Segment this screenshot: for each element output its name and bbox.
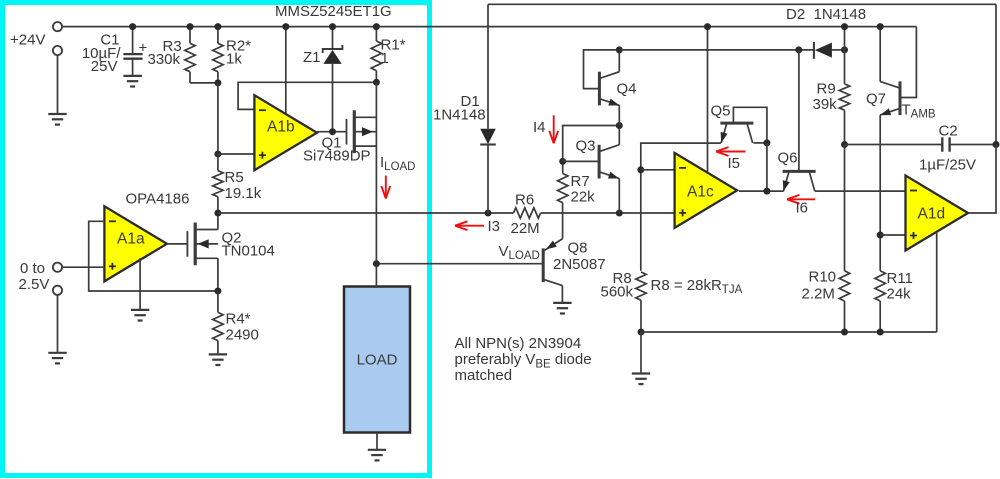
wire Q2 source down [217,258,219,291]
transistor Q6 PNP [783,170,816,173]
svg-text:R10: R10 [809,268,837,285]
svg-text:22k: 22k [571,189,596,206]
op-amp A1d [906,176,969,251]
op-amp A1a [104,206,166,281]
svg-text:2N5087: 2N5087 [553,256,606,273]
svg-text:Q5: Q5 [711,102,731,119]
node D2 cathode / Q6 base [795,46,802,53]
svg-text:19.1k: 19.1k [225,185,262,202]
node A (R2/R3 bottom) [214,79,221,86]
resistor R8 560k [636,272,646,300]
svg-text:Q7: Q7 [866,91,886,108]
svg-text:2490: 2490 [226,326,259,343]
diode D1 1N4148 [487,4,489,129]
ground for R4 [209,353,227,355]
svg-text:22M: 22M [511,220,540,237]
resistor R1* 1 [375,27,377,41]
op-amp A1b [254,95,317,170]
wire rail right corner down to Q7 base [902,27,917,98]
wire Q8 collector to ground [561,286,563,303]
svg-text:1: 1 [381,50,389,67]
wire LOAD bottom lead [376,433,378,450]
svg-text:Q8: Q8 [568,239,588,256]
node A1b plus tap [214,151,221,158]
node rail-R3 [187,23,194,30]
zener diode Z1 [332,27,334,49]
node load top [373,260,380,267]
node rail-A1b supply [282,23,289,30]
node A1c minus tap [637,166,644,173]
wire top loop D1 to A1d output [488,3,996,5]
wire Q8 emitter up to R7 [562,204,564,239]
wire Q2 drain to R5 bottom node [217,213,219,230]
svg-text:All NPN(s) 2N3904: All NPN(s) 2N3904 [455,335,582,352]
ground for R8 [632,372,650,374]
wire I4 branch from Q4 emitter node [563,126,620,162]
ground [48,113,66,115]
resistor R7 22k [562,161,564,173]
svg-text:+: + [139,40,148,57]
svg-text:MMSZ5245ET1G: MMSZ5245ET1G [275,3,392,20]
svg-text:A1a: A1a [117,231,145,248]
resistor R10 2.2M [839,271,849,301]
svg-text:TN0104: TN0104 [222,243,275,260]
wire A1a output to Q2 gate [167,243,188,245]
wire A1d V- to ground net [936,232,938,332]
svg-text:LOAD: LOAD [357,352,398,369]
wire A1a feedback minus to Q2 source node [89,221,218,291]
node D1 cathode on sense run [485,210,492,217]
svg-text:0 to: 0 to [20,260,45,277]
transistor Q8 2N5087 PNP [542,248,545,282]
node Q2 source / R4 / A1a feedback [214,288,221,295]
wire line Q4 collector to D2 [619,49,814,51]
wire Q3 emitter down [618,179,620,214]
ground for C1 [123,75,141,77]
svg-text:I5: I5 [728,155,741,172]
wire Q7 collector to rail [879,27,881,82]
svg-text:A1c: A1c [687,184,714,201]
transistor Q2 TN0104 N-MOSFET [186,231,188,257]
node rail-D2 [841,23,848,30]
wire Q6 collector to A1d minus [815,190,906,192]
transistor Q4 NPN diode-connected [598,72,601,106]
wire D2 anode to rail [844,27,846,50]
transistor Q7 NPN TAMB sensor [899,81,902,115]
svg-text:1µF/25V: 1µF/25V [919,156,976,173]
0 to 2.5V input terminal [53,263,62,272]
transistor Q5 PNP diode-connected [720,122,753,125]
op-amp A1b supply pin [285,27,287,114]
svg-text:I3: I3 [488,218,501,235]
node C2 right / A1d output / top loop [993,141,1000,148]
wire Q1 drain to LOAD and VLOAD tap [376,263,543,265]
node rail-Z1 [329,23,336,30]
wire +24V rail [62,26,916,28]
svg-text:560k: 560k [601,283,634,300]
svg-text:OPA4186: OPA4186 [126,190,190,207]
ground for A1a [131,309,149,311]
wire Q5 collector to node [753,142,767,144]
svg-text:Q6: Q6 [778,150,798,167]
wire LOAD top lead [375,264,377,287]
svg-text:R5: R5 [225,169,244,186]
wire A1d output loop to C2 [968,145,996,214]
node R11 bottom [877,329,884,336]
node Q3 emitter on sense run [616,210,623,217]
wire current-sense line R1 bottom to A1b minus [238,82,376,109]
node R9 bottom / C2 / R10 [841,141,848,148]
wire Q5 base loop [733,107,767,143]
wire Q1 drain rail [375,82,377,263]
svg-text:2.5V: 2.5V [19,276,50,293]
current arrow ILOAD [385,176,387,197]
svg-text:R6: R6 [515,191,534,208]
current arrow I5 [718,151,746,153]
svg-text:Q3: Q3 [576,138,596,155]
capacitor C1 [132,27,134,54]
wire R8 column: Q5 emitter to A1c minus to R8 [641,143,721,271]
wire node A down to A1b plus tap [217,83,219,154]
svg-text:A1b: A1b [267,119,295,136]
wire Q6 base vertical [798,50,800,171]
wire Q3 base stub [563,160,599,162]
wire +24V terminal to ground [57,55,59,114]
+24V supply terminal [53,22,62,31]
wire A1b output to Q1 gate [317,131,347,133]
svg-text:330k: 330k [148,51,181,68]
svg-text:Si7489DP: Si7489DP [303,148,371,165]
svg-text:D2 1N4148: D2 1N4148 [786,6,866,23]
ground for Q8 [553,302,571,304]
svg-text:matched: matched [455,367,513,384]
node A1d plus / R11 top [877,232,884,239]
node D2 anode / R9 top [841,46,848,53]
wire Q4 collector up [618,50,620,72]
svg-text:C2: C2 [939,122,958,139]
wire Q4 base loop [584,50,620,89]
wire R3 bottom jog to node A [190,82,218,84]
node R5 bottom / Q2 drain [214,210,221,217]
svg-text:I4: I4 [533,119,546,136]
wire A1a V- to ground [139,258,141,310]
resistor R11 24k [875,271,885,301]
wire bottom ground net [641,331,937,333]
svg-text:Q4: Q4 [617,80,637,97]
capacitor C2 1uF/25V [845,144,943,146]
svg-text:R11: R11 [887,270,913,287]
resistor R9 39k [844,50,846,84]
current arrow I3 [457,225,484,227]
cyan highlight frame [3,3,430,476]
wire main sense run Q2 drain to A1c plus [218,212,514,214]
resistor R4* 2490 [217,291,219,312]
svg-text:I6: I6 [796,199,809,216]
svg-text:1k: 1k [226,51,242,68]
svg-text:25V: 25V [91,58,118,75]
wire A1c minus stub [641,169,675,171]
node rail-R1 [373,23,380,30]
resistor R2* 1k [217,27,219,44]
wire input terminal to A1a plus [62,266,104,268]
wire A1b plus stub [218,153,255,155]
node gate-Z1 [329,128,336,135]
resistor R6 22M [514,208,541,218]
node rail-A1c supply [704,23,711,30]
svg-text:39k: 39k [813,96,838,113]
op-amp A1c [675,153,738,228]
svg-text:Z1: Z1 [303,49,321,66]
svg-text:R7: R7 [571,173,590,190]
current arrow I4 [553,115,555,141]
node A1c output [763,188,770,195]
LOAD box [344,287,410,433]
node rail-R2 [214,23,221,30]
wire A1c output to Q6 emitter [739,190,784,192]
svg-text:+24V: +24V [10,32,45,49]
node R8 bottom ground net [638,329,645,336]
op-amp A1c supply pin [707,27,709,172]
wire lower input terminal to ground [57,295,59,353]
wire R8 to ground [640,332,642,374]
wire A1d plus stub [880,234,905,236]
svg-text:R4*: R4* [226,311,251,328]
wire R9 bottom down to R10 (crosses Q6 collector wire) [844,145,846,271]
node R10 bottom [841,329,848,336]
node rail-Q7 collector [877,23,884,30]
svg-text:A1d: A1d [918,206,946,223]
node Q4 collector [616,46,623,53]
node R7 top / Q3 base [559,158,566,165]
svg-text:24k: 24k [887,285,912,302]
wire Q4 emitter down [618,105,620,125]
resistor R3 330k [189,27,191,44]
svg-text:2.2M: 2.2M [802,286,835,303]
node Q5 collector/base [763,139,770,146]
resistor R5 19.1k [217,154,219,171]
wire Q3 collector up [618,126,620,145]
node R1 bottom / Q1 source [373,79,380,86]
wire Q7 emitter down to A1d plus and R11 [879,115,881,271]
node Q4 emitter / Q3 collector [616,122,623,129]
svg-text:1N4148: 1N4148 [433,107,486,124]
ground for LOAD [368,449,386,451]
transistor Q3 NPN [598,145,601,179]
current arrow I6 [789,198,815,200]
node rail-C1 [129,23,136,30]
wire Q5 node down to A1c output [766,143,768,191]
transistor Q1 Si7489DP P-MOSFET [346,119,348,145]
ground [48,352,66,354]
